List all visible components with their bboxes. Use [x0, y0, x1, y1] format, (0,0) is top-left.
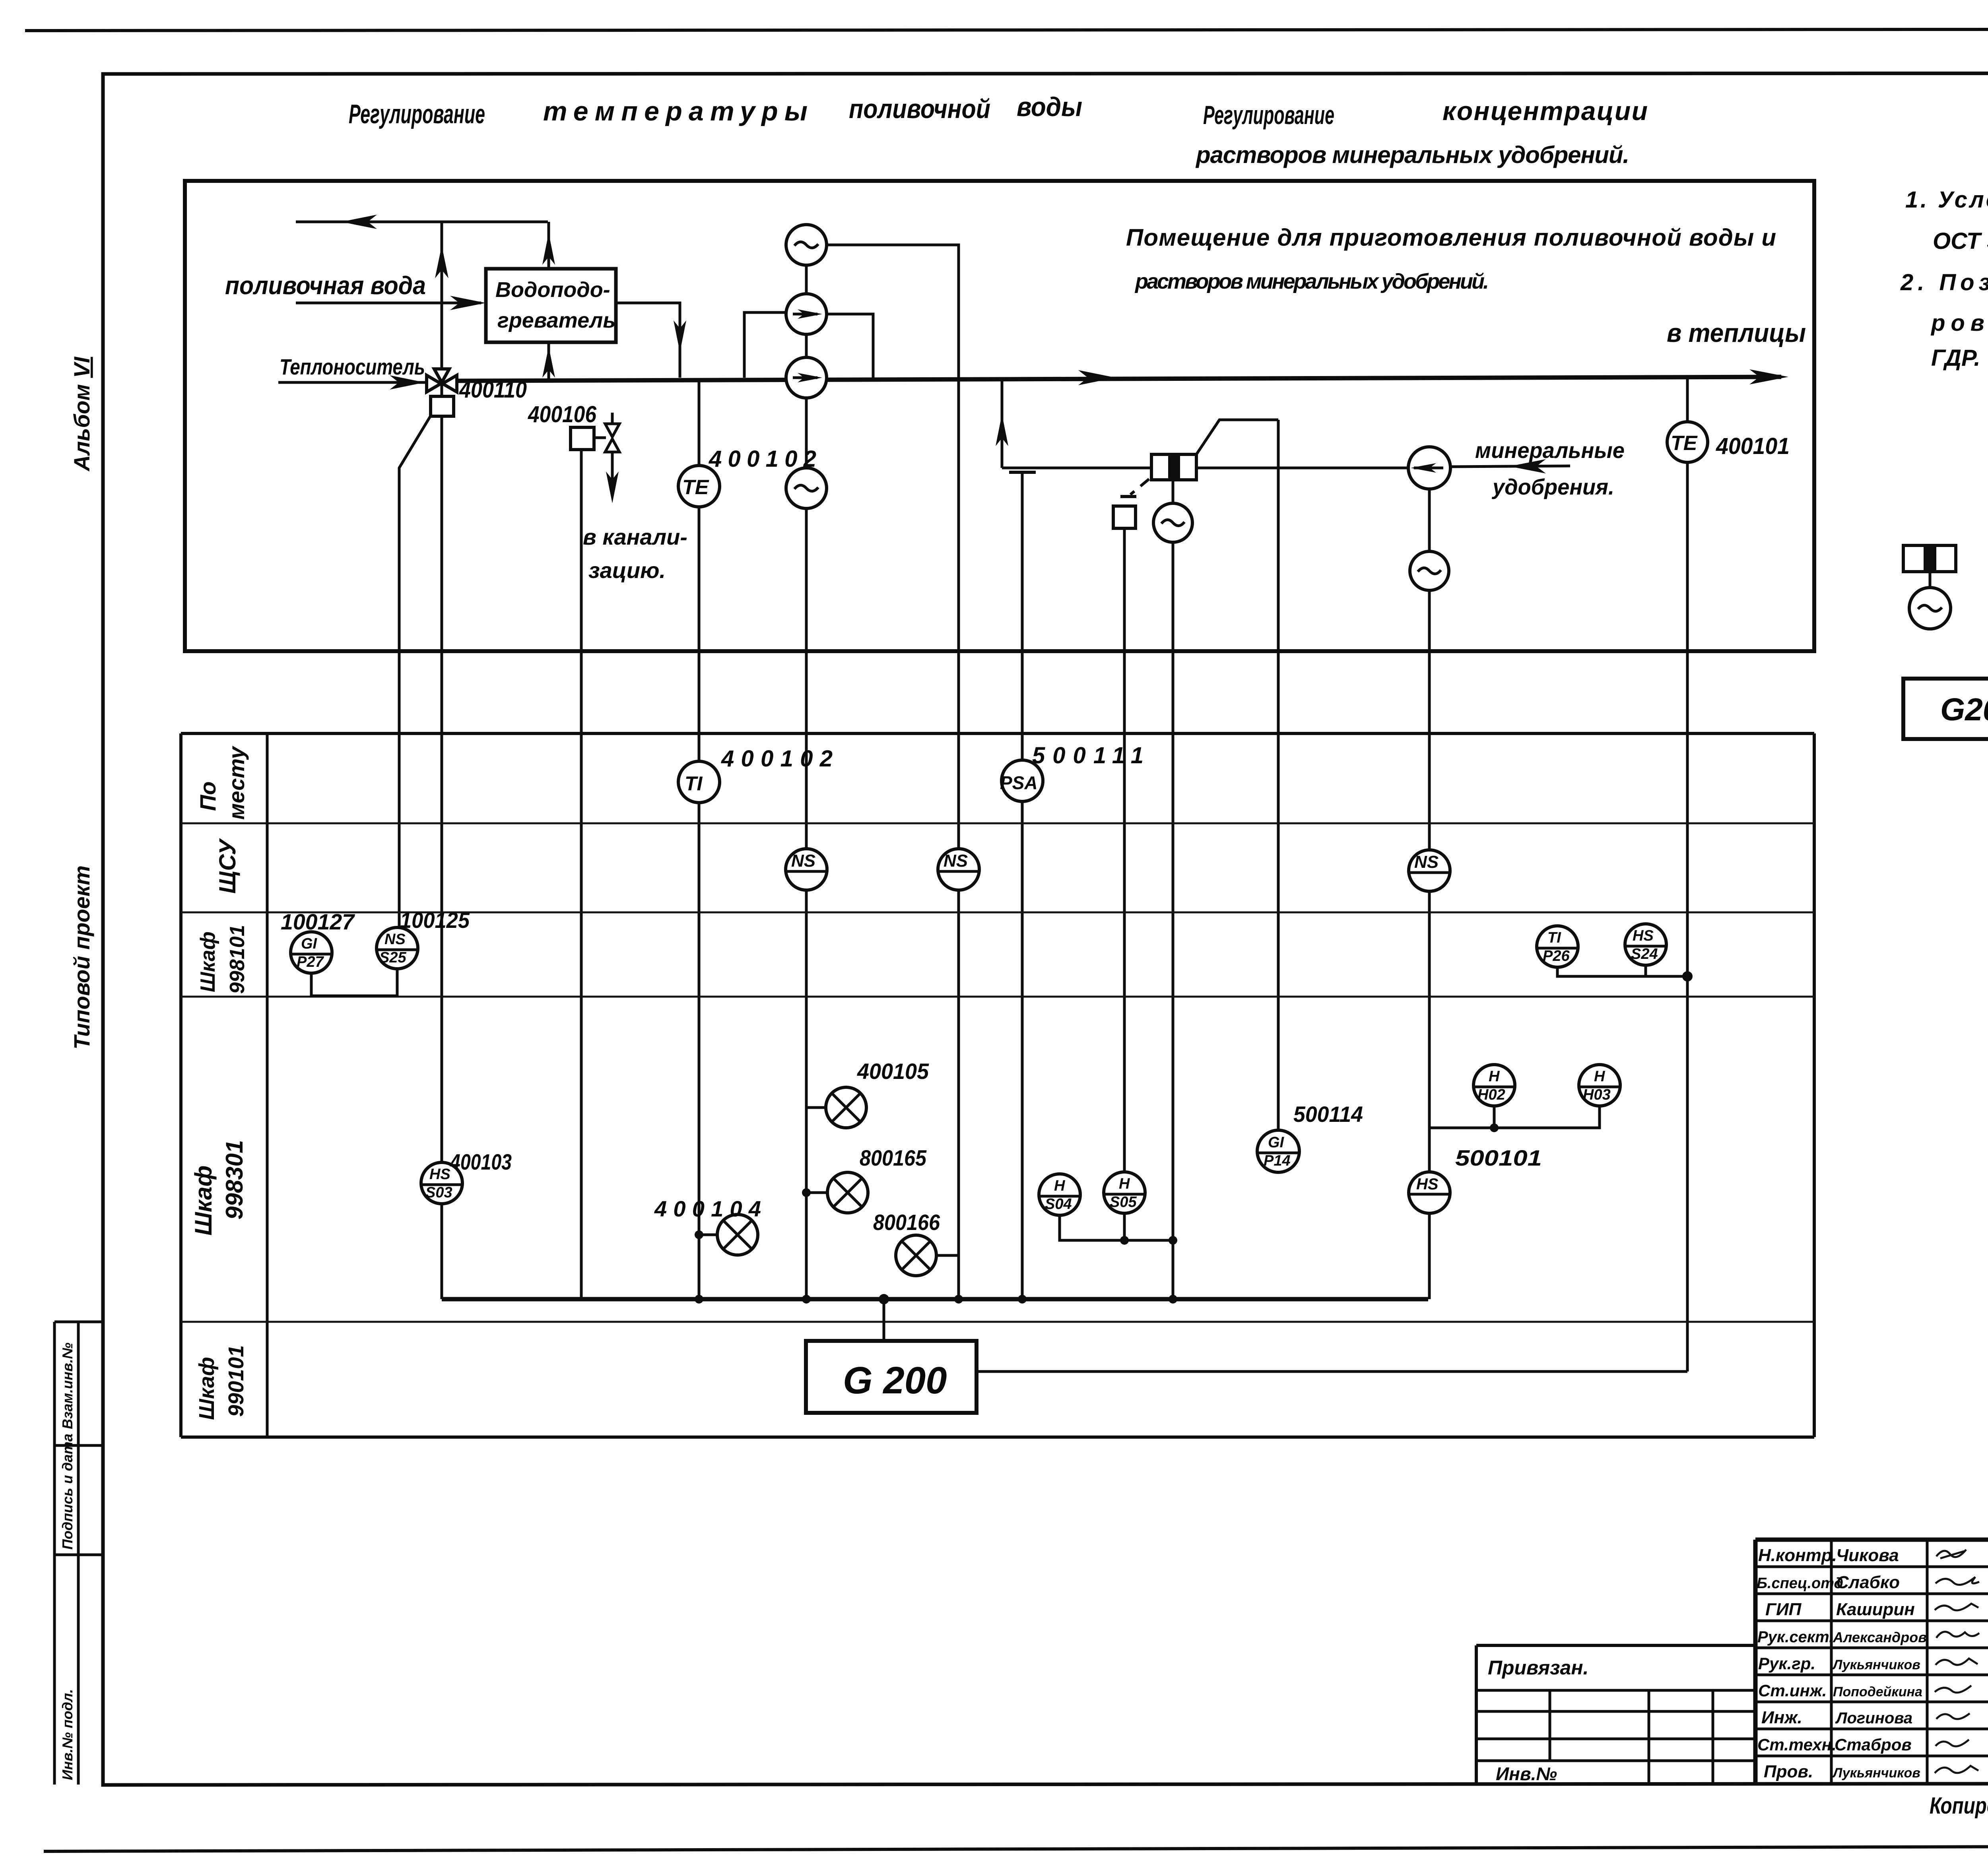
H S05 — [1104, 1172, 1145, 1213]
row line Шкаф 998101 / Шкаф 998301 — [181, 996, 1814, 998]
PROCESS BOX — [185, 181, 1814, 1372]
svg-text:500114: 500114 — [1293, 1102, 1363, 1127]
svg-text:NS: NS — [1414, 852, 1439, 872]
svg-text:Пров.: Пров. — [1764, 1762, 1813, 1781]
stem 400106 — [594, 436, 606, 439]
svg-text:Шкаф: Шкаф — [190, 1166, 217, 1236]
wire: heater outlet to main — [616, 303, 680, 378]
staff row lines — [1755, 1567, 1988, 1756]
actuator 400110 — [431, 396, 454, 416]
svg-text:Н.контр.: Н.контр. — [1758, 1546, 1837, 1565]
legend piston pump symbol — [1903, 545, 1956, 572]
pump P1 inlet — [744, 312, 786, 378]
svg-text:S25: S25 — [379, 949, 406, 966]
arrow up heater top riser — [542, 233, 555, 265]
svg-text:Привязан.: Привязан. — [1488, 1657, 1588, 1679]
svg-text:растворов минеральных удобрени: растворов минеральных удобрений. — [1134, 270, 1489, 293]
NS starter mid — [938, 849, 979, 890]
title block outer top — [1755, 1540, 1988, 1783]
arrow up into heater bottom — [542, 347, 555, 378]
TE 400101 sensor — [1667, 422, 1708, 462]
wire: irrigation water inlet — [296, 302, 481, 305]
bracket H H02 / H H03 — [1429, 1106, 1600, 1128]
svg-text:H: H — [1119, 1176, 1130, 1192]
svg-text:P14: P14 — [1264, 1152, 1291, 1169]
bracket H S04 / H S05 — [1060, 1213, 1173, 1240]
TITLE BLOCK — [1476, 1540, 1988, 1822]
attach table rows — [1476, 1690, 1755, 1761]
sheet outer top edge line — [25, 29, 1988, 31]
NS S25 — [377, 927, 418, 969]
water heater Водоподогреватель — [486, 269, 616, 342]
svg-text:H: H — [1054, 1178, 1066, 1194]
arrow tip main line end — [1749, 369, 1788, 384]
actuator square 500101 — [1113, 506, 1136, 528]
svg-text:H: H — [1489, 1068, 1500, 1085]
svg-text:P26: P26 — [1543, 948, 1570, 964]
svg-text:ОСТ 36-27-77.: ОСТ 36-27-77. — [1933, 228, 1988, 254]
pump P2 on main — [786, 357, 827, 398]
attach table columns — [1550, 1690, 1713, 1783]
H S04 — [1039, 1174, 1080, 1215]
bracket GI P27 / NS S25 — [311, 969, 397, 996]
wire: riser from 3-way valve to return line — [441, 222, 443, 384]
svg-text:Рук.гр.: Рук.гр. — [1758, 1654, 1815, 1673]
TE 400102 sensor — [678, 466, 720, 507]
svg-text:998101: 998101 — [226, 925, 249, 994]
svg-text:Чикова: Чикова — [1836, 1546, 1899, 1565]
lamp 800165 — [806, 1191, 827, 1194]
wire pump column — [805, 265, 808, 1299]
pump P1 — [786, 294, 827, 334]
svg-text:GI: GI — [1268, 1134, 1285, 1151]
svg-text:Поподейкина: Поподейкина — [1833, 1684, 1922, 1699]
GI P14 — [1257, 1130, 1299, 1172]
svg-text:воды: воды — [1017, 92, 1082, 122]
dashed link piston to actuator — [1130, 479, 1149, 495]
svg-text:Ст.инж.: Ст.инж. — [1758, 1681, 1827, 1700]
TI 400102 local indicator — [678, 761, 720, 803]
legend motor — [1909, 588, 1951, 629]
svg-text:PSA: PSA — [1000, 772, 1038, 793]
svg-text:в теплицы: в теплицы — [1667, 318, 1806, 347]
svg-text:Лукьянчиков: Лукьянчиков — [1832, 1657, 1920, 1672]
wire HS S03 to bus — [441, 1204, 443, 1299]
svg-text:998301: 998301 — [221, 1140, 248, 1220]
fertilizer pump — [1408, 447, 1450, 489]
NOTES + LEGEND — [1900, 187, 1988, 739]
svg-text:По: По — [195, 782, 220, 811]
wire: valve stem down to HS S03 — [441, 416, 443, 1163]
G200 control device — [806, 1341, 977, 1413]
svg-text:Помещение для приготовления по: Помещение для приготовления поливочной в… — [1126, 224, 1776, 251]
H H03 — [1579, 1065, 1620, 1106]
svg-text:удобрения.: удобрения. — [1491, 474, 1614, 499]
svg-text:G200: G200 — [1940, 692, 1988, 727]
svg-text:поливочной: поливочной — [849, 94, 990, 124]
pump P1 outlet — [827, 314, 873, 378]
svg-text:400106: 400106 — [528, 402, 597, 427]
row line По месту / ЩСУ — [181, 823, 1814, 824]
svg-text:S05: S05 — [1110, 1194, 1137, 1210]
signal bus (Шкаф 998301) — [442, 1297, 1428, 1302]
location table outline — [181, 733, 1814, 1437]
TABLE — [181, 733, 1814, 1437]
valve stem — [441, 384, 443, 396]
arrow up on riser — [435, 246, 448, 278]
left margin stamp column left line — [53, 1322, 56, 1785]
main line to greenhouses — [456, 377, 1781, 381]
actuator 400106 — [571, 427, 594, 450]
svg-text:990101: 990101 — [224, 1345, 248, 1417]
drain outlet with arrow — [611, 452, 614, 496]
HS S24 — [1625, 924, 1666, 965]
row line ЩСУ / Шкаф 998101 — [181, 912, 1814, 914]
svg-text:Каширин: Каширин — [1836, 1600, 1915, 1619]
svg-text:Инв.№: Инв.№ — [1496, 1763, 1557, 1784]
stub TE 400102 — [698, 378, 701, 466]
svg-text:Ст.техн.: Ст.техн. — [1757, 1735, 1837, 1754]
dosing line — [1002, 467, 1408, 469]
left margin stamp column middle line — [77, 1322, 80, 1785]
svg-text:температуры: температуры — [543, 96, 808, 126]
stamp cell separator 3 — [54, 1554, 103, 1556]
svg-text:ТЕ: ТЕ — [682, 476, 709, 499]
svg-text:TI: TI — [685, 772, 703, 795]
svg-text:Типовой проект: Типовой проект — [69, 865, 94, 1049]
svg-text:400101: 400101 — [1716, 433, 1790, 459]
svg-text:H: H — [1594, 1068, 1606, 1085]
svg-text:Слабко: Слабко — [1836, 1573, 1900, 1592]
wire: heat carrier line — [278, 381, 427, 384]
svg-text:Б.спец.отд: Б.спец.отд — [1757, 1575, 1843, 1592]
arrow up on riser — [996, 414, 1008, 446]
wire M3 drop — [1172, 542, 1175, 1299]
svg-text:Рук.сект.: Рук.сект. — [1757, 1628, 1833, 1646]
G200 top drop — [883, 1299, 885, 1341]
svg-text:Теплоноситель: Теплоноситель — [280, 354, 425, 379]
wire: 400106 drop — [580, 450, 583, 1299]
svg-text:Альбом VI: Альбом VI — [69, 356, 94, 472]
wire actuator drop to H S05 — [1123, 528, 1126, 1173]
svg-text:H03: H03 — [1583, 1086, 1611, 1103]
svg-text:500101: 500101 — [1455, 1145, 1542, 1170]
NS starter left — [786, 849, 827, 890]
svg-text:поливочная вода: поливочная вода — [225, 271, 426, 300]
svg-text:ГИП: ГИП — [1765, 1600, 1802, 1619]
row line Шкаф 998301 / Шкаф 990101 — [181, 1321, 1814, 1323]
arrow down on outlet — [674, 320, 686, 352]
wire PSA drop — [1021, 472, 1024, 1299]
HS 500101 — [1409, 1172, 1450, 1213]
svg-text:400105: 400105 — [857, 1059, 929, 1084]
staff column lines — [1831, 1540, 1988, 1783]
svg-text:100127: 100127 — [281, 909, 355, 934]
PSA 500111 local alarm — [1002, 760, 1043, 801]
level tube T-bar — [1009, 471, 1036, 474]
svg-text:Регулирование: Регулирование — [1203, 100, 1334, 130]
lamp 800166 — [936, 1254, 959, 1257]
bracket TI P26 / HS S24 to TE line — [1557, 965, 1687, 976]
link piston to motor — [1172, 480, 1175, 503]
svg-text:S24: S24 — [1631, 946, 1658, 962]
motor M4 fert — [1410, 551, 1449, 590]
wire: return line top — [296, 221, 548, 223]
svg-text:GI: GI — [301, 935, 318, 952]
svg-text:S04: S04 — [1045, 1196, 1072, 1212]
svg-text:в канали-: в канали- — [583, 524, 687, 549]
label column separator — [266, 733, 269, 1437]
svg-text:зацию.: зацию. — [588, 558, 666, 583]
riser to dosing line — [1001, 378, 1004, 468]
arrow on return line (left) — [341, 215, 377, 229]
NS starter right — [1409, 850, 1450, 891]
svg-text:Логинова: Логинова — [1835, 1709, 1912, 1727]
arrow right on heat carrier — [390, 375, 425, 390]
svg-text:ров приняты по документации: ров приняты по документации — [1930, 310, 1988, 336]
stub above drain valve — [611, 413, 614, 424]
lamp 400104 — [699, 1234, 717, 1236]
attach table box — [1476, 1645, 1755, 1783]
svg-text:концентрации: концентрации — [1442, 96, 1648, 126]
svg-text:400102: 400102 — [721, 746, 833, 772]
sheet outer bottom edge line — [44, 1845, 1988, 1851]
svg-text:Инв.№ подл.: Инв.№ подл. — [59, 1689, 76, 1780]
svg-text:Водоподо-: Водоподо- — [495, 278, 610, 302]
svg-text:Копировал Полякова: Копировал Полякова — [1930, 1793, 1988, 1819]
wire: heater bottom riser — [547, 342, 550, 380]
svg-text:ГДР.: ГДР. — [1931, 345, 1980, 371]
wire GI P14 drop — [1277, 420, 1280, 1131]
stamp cell separator 2 — [54, 1444, 103, 1447]
G200 link to TE401 line — [977, 1370, 1687, 1373]
svg-text:Лукьянчиков: Лукьянчиков — [1832, 1765, 1920, 1781]
arrow mid main line — [1078, 370, 1116, 385]
motor M2 — [786, 468, 827, 508]
svg-text:греватель: греватель — [497, 308, 615, 332]
TI P26 — [1537, 926, 1578, 967]
diagonal from piston to wire — [1196, 420, 1278, 454]
HS S03 — [421, 1162, 462, 1204]
svg-text:100125: 100125 — [400, 908, 470, 933]
3-way valve 400110 — [427, 369, 457, 392]
wire TE401 long drop — [1686, 462, 1689, 1372]
svg-text:Стабров: Стабров — [1835, 1735, 1912, 1754]
drain valve 400106 — [605, 424, 619, 452]
svg-text:Шкаф: Шкаф — [196, 931, 219, 992]
svg-text:минеральные: минеральные — [1475, 438, 1625, 463]
T-bar actuator — [1120, 495, 1136, 498]
wire M1 to right drop — [827, 245, 959, 1299]
svg-text:ТЕ: ТЕ — [1671, 432, 1698, 455]
GI P27 — [291, 932, 332, 973]
svg-text:800165: 800165 — [860, 1145, 927, 1170]
svg-text:1. Условные обозначения выполн: 1. Условные обозначения выполнены по — [1905, 187, 1988, 213]
fertilizer feed line — [1450, 466, 1570, 467]
svg-text:P27: P27 — [297, 954, 324, 970]
lamp 400105 — [806, 1106, 826, 1109]
svg-text:2. Позиционные обозначения при: 2. Позиционные обозначения прибо- — [1900, 270, 1988, 295]
svg-text:Регулирование: Регулирование — [349, 99, 485, 129]
svg-text:NS: NS — [944, 851, 968, 871]
arrow into heater — [450, 296, 486, 310]
motor M1 — [786, 225, 827, 265]
process room boundary box — [185, 181, 1814, 651]
svg-text:HS: HS — [1416, 1176, 1439, 1193]
svg-text:800166: 800166 — [873, 1210, 940, 1235]
motor M3 piston — [1153, 503, 1192, 542]
svg-text:ЩСУ: ЩСУ — [215, 838, 241, 894]
wire: heater top riser — [547, 222, 550, 269]
stamp cell separator top — [54, 1321, 103, 1323]
piston pump dosing symbol — [1151, 454, 1196, 480]
svg-text:H02: H02 — [1477, 1086, 1505, 1103]
H H02 — [1474, 1065, 1515, 1106]
INSTRUMENTS — [281, 743, 1693, 1413]
arrow left on feed line — [1509, 459, 1546, 473]
wire TE402 drop — [698, 507, 701, 1299]
svg-text:HS: HS — [429, 1166, 450, 1183]
svg-text:TI: TI — [1547, 929, 1561, 946]
wire M4 drop — [1428, 590, 1431, 1173]
svg-text:NS: NS — [384, 931, 406, 948]
legend G200 box — [1903, 679, 1988, 739]
junction dots on bus — [695, 1295, 703, 1304]
svg-text:HS: HS — [1633, 927, 1654, 944]
stub TE 400101 — [1686, 378, 1689, 422]
svg-text:Подпись и дата: Подпись и дата — [59, 1434, 76, 1550]
HEADINGS — [349, 92, 1648, 168]
svg-text:месту: месту — [224, 745, 249, 820]
svg-text:Взам.инв.№: Взам.инв.№ — [59, 1342, 76, 1429]
svg-text:растворов минеральных удобрени: растворов минеральных удобрений. — [1195, 142, 1629, 168]
svg-text:G 200: G 200 — [843, 1359, 947, 1402]
svg-text:NS: NS — [791, 851, 815, 871]
signatures squiggles — [1936, 1550, 1966, 1558]
svg-text:S03: S03 — [425, 1184, 452, 1201]
svg-text:Инж.: Инж. — [1761, 1708, 1802, 1727]
legend symbol stem — [1929, 572, 1932, 588]
link fert pump to motor — [1428, 489, 1431, 551]
svg-text:Александров: Александров — [1833, 1629, 1927, 1645]
wire HS 500101 to bus corner — [1428, 1213, 1429, 1299]
svg-text:500111: 500111 — [1032, 743, 1143, 768]
svg-text:400103: 400103 — [450, 1149, 512, 1174]
wire: diagonal from actuator — [399, 416, 431, 928]
svg-text:Шкаф: Шкаф — [195, 1357, 219, 1420]
